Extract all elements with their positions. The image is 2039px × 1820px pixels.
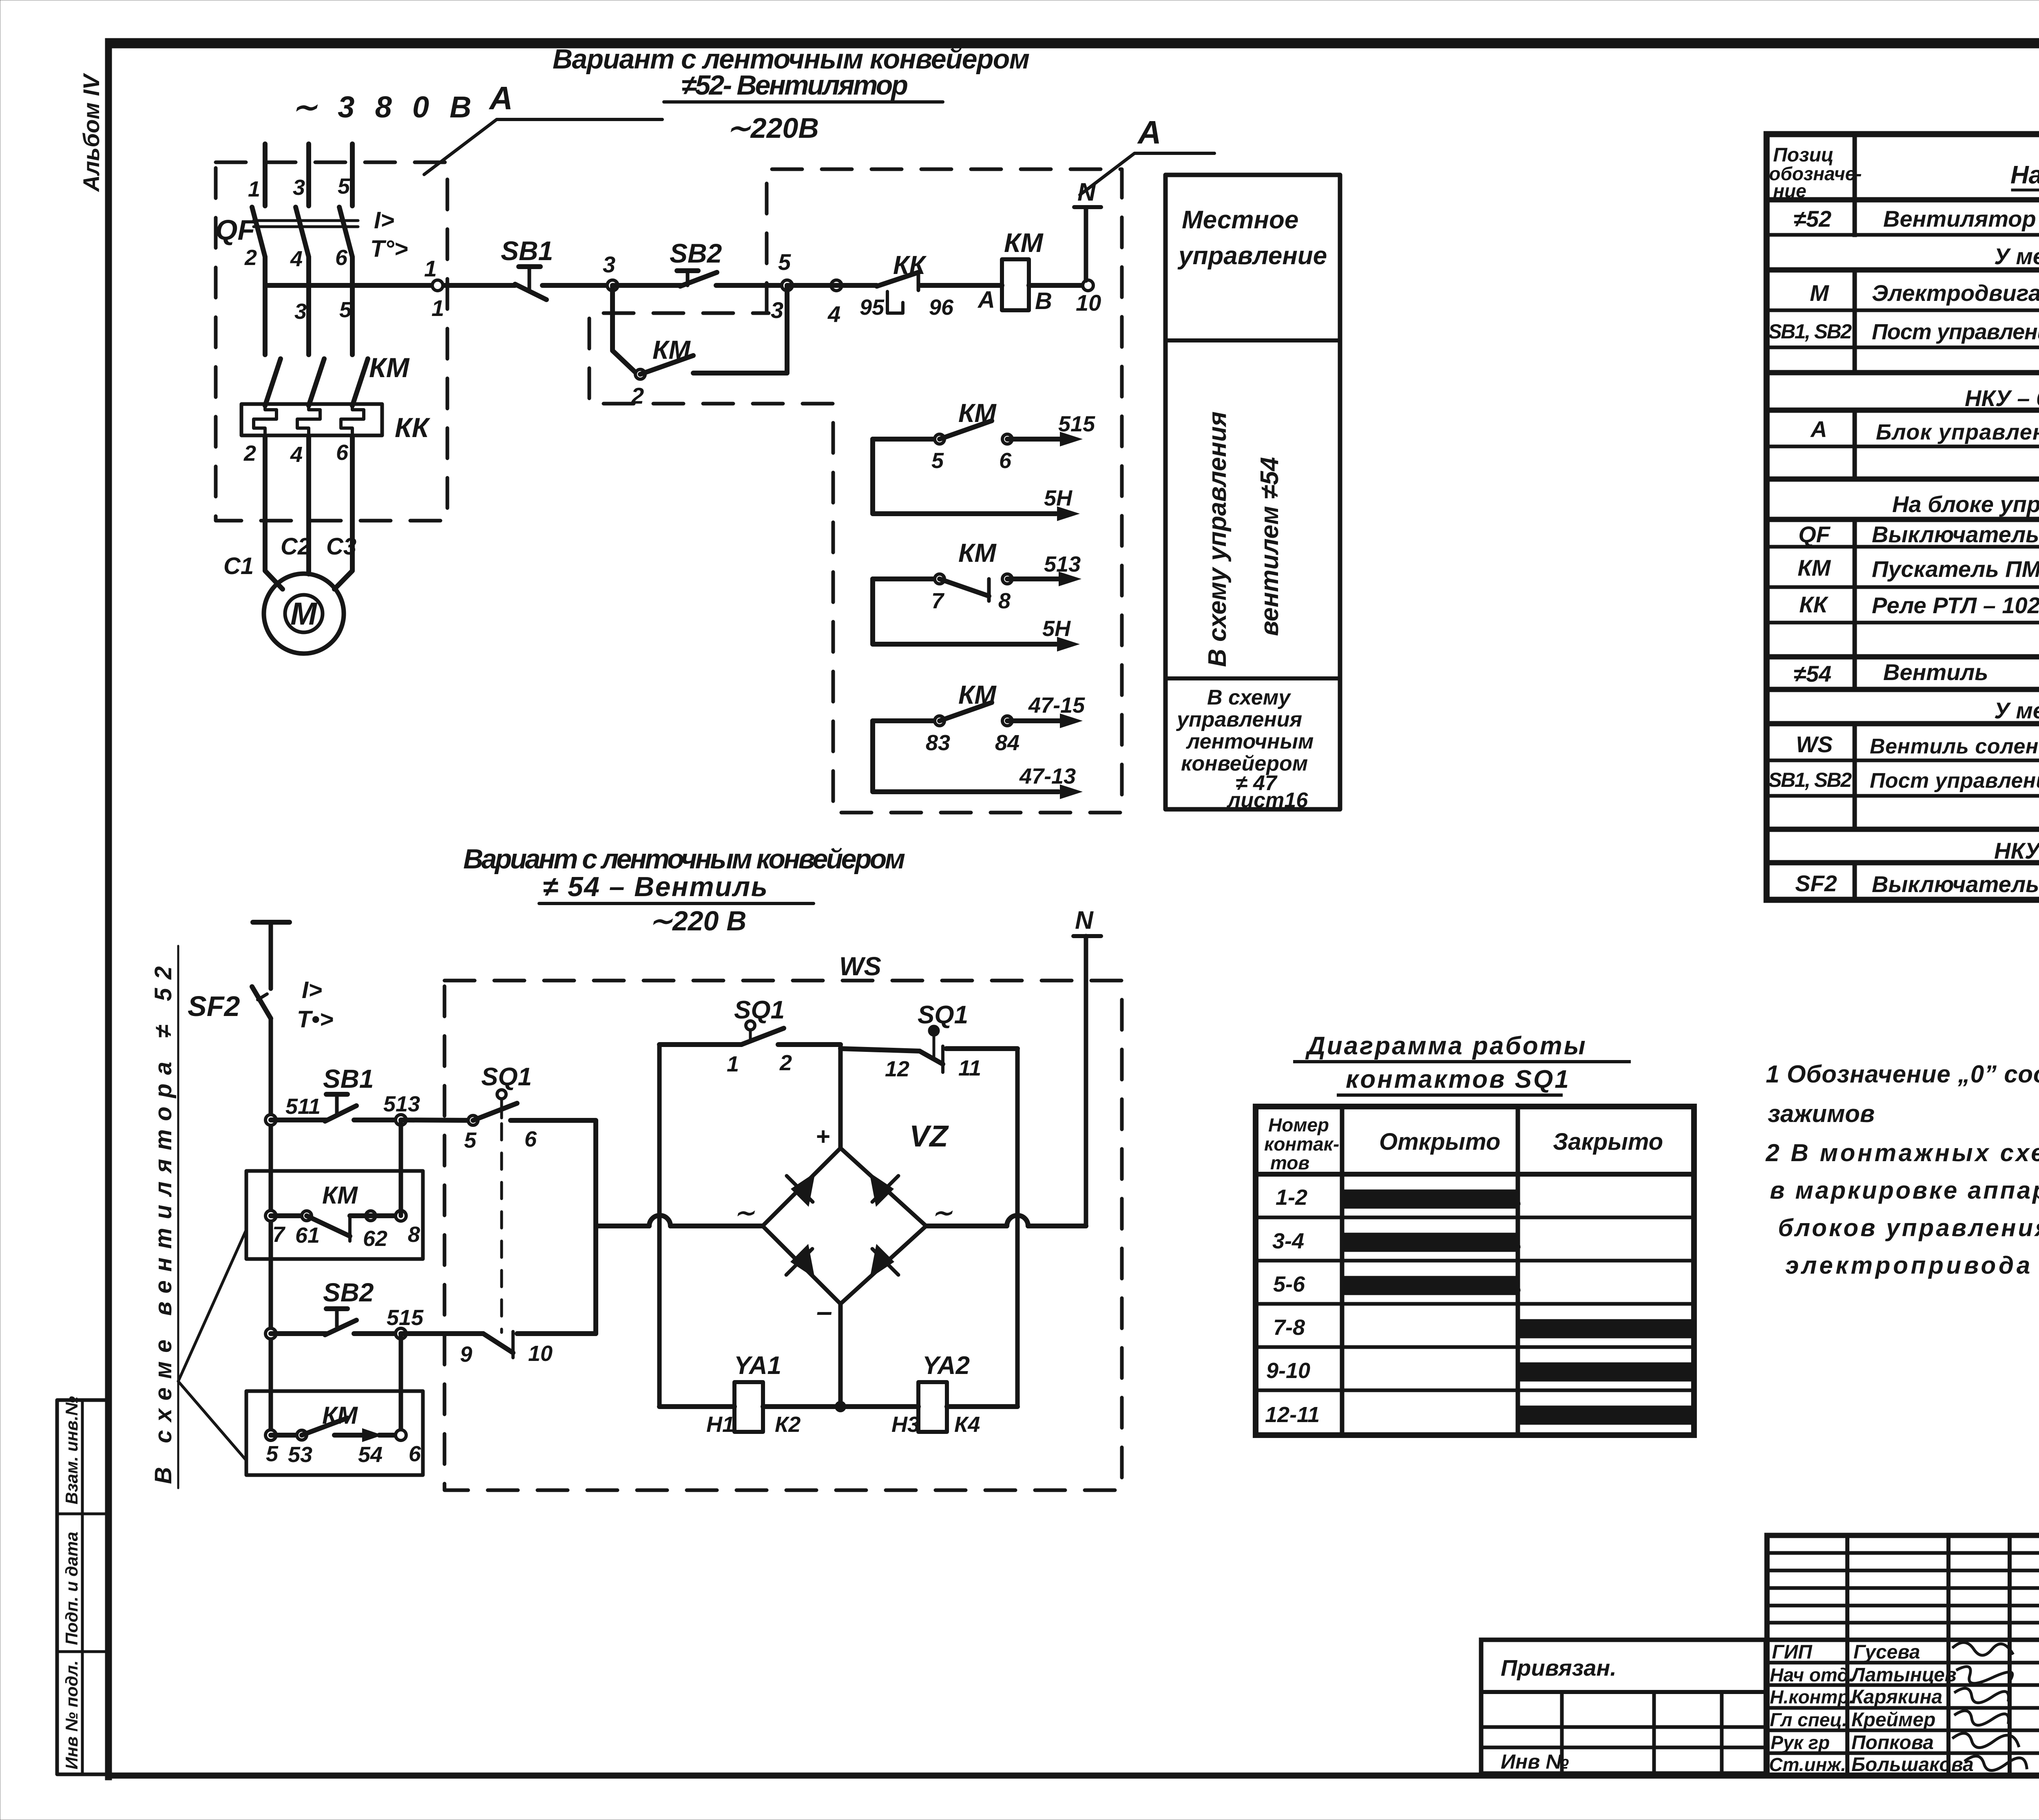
state bar 7-8 closed [1520,1321,1692,1336]
state bar 1-2 open [1346,1191,1516,1207]
drop 513 to seal [399,1120,403,1216]
thermal hook [887,292,903,313]
phase line 2 mid [306,257,311,355]
svg-text:–: – [816,1295,832,1327]
wire SB1 to 513 [354,1118,401,1122]
svg-text:вентилем ≠54: вентилем ≠54 [1256,457,1284,636]
wire 6 to corner [511,1120,596,1334]
svg-text:К2: К2 [775,1412,801,1437]
sig table columns [1845,1535,1849,1776]
svg-text:Карякина: Карякина [1851,1686,1942,1708]
border frame top [105,38,2039,48]
svg-text:В схему управления: В схему управления [1203,411,1232,667]
bridge diamond [763,1148,926,1304]
svg-text:7: 7 [272,1222,286,1247]
svg-text:КК: КК [395,412,431,443]
svg-text:SF2: SF2 [188,990,240,1022]
wire 513 to SQ1 [401,1120,473,1120]
svg-text:Реле РТЛ – 102204: Реле РТЛ – 102204 [1872,592,2039,618]
contactor KM blade 2 [309,359,324,406]
spec table column poz [1853,134,1857,900]
bridge right to jump [926,1224,1007,1228]
svg-text:Местное: Местное [1182,206,1298,234]
svg-text:12: 12 [885,1057,909,1081]
phase line 3 mid [350,257,355,355]
svg-text:На блоке управления: На блоке управления [1892,491,2039,517]
SQ1 mechanical link dashed [500,1124,503,1332]
node 3 [607,280,618,291]
svg-text:лист16: лист16 [1226,789,1308,812]
neutral N terminal sch1 [1084,209,1088,281]
pushbutton SB2 valve NO [326,1306,347,1311]
contactor KM blade 1 [265,359,281,406]
svg-text:8: 8 [998,589,1011,613]
dashed boundary block A control [589,169,1122,813]
svg-text:Закрыто: Закрыто [1553,1129,1663,1155]
svg-text:Вентилятор: Вентилятор [1883,206,2036,232]
svg-text:9: 9 [460,1342,472,1367]
svg-text:КМ: КМ [369,352,410,383]
svg-text:электропривода по плану: электропривода по плану [1785,1252,2039,1279]
seal branch wire to node5 [693,285,787,373]
svg-text:3: 3 [771,297,783,323]
svg-text:≠54: ≠54 [1794,661,1831,687]
svg-text:515: 515 [387,1305,424,1330]
svg-text:Латынцев: Латынцев [1850,1664,1957,1686]
pushbutton SB1 NC contact [519,264,540,269]
callout A line sch1 control [1080,153,1214,195]
drop 515 to seal2 [399,1334,403,1435]
svg-text:Привязан.: Привязан. [1501,1655,1617,1681]
motor M inner circle [285,595,323,632]
phase line 1 mid [263,257,268,285]
wire node3 to SB2 [613,283,682,288]
svg-text:7-8: 7-8 [1273,1315,1305,1340]
svg-text:Диаграмма работы: Диаграмма работы [1305,1032,1587,1060]
aux row 2 wire arrow 513 [1007,576,1060,581]
svg-text:тов: тов [1270,1152,1309,1173]
seal2 wire arrow [334,1433,367,1438]
svg-text:QF: QF [215,214,256,246]
svg-text:∼: ∼ [734,1199,755,1226]
svg-text:∼220В: ∼220В [727,112,819,144]
wire 10 up [517,1331,596,1336]
underline title 2 [539,902,814,905]
sig name rows [1767,1661,2039,1665]
svg-text:53: 53 [288,1442,312,1467]
node SB2 junction [265,1328,276,1339]
svg-text:5Н: 5Н [1042,616,1071,641]
center drop to bridge [838,1045,843,1148]
svg-text:5Н: 5Н [1044,486,1073,510]
svg-text:НКУ - 6Щ: НКУ - 6Щ [1994,838,2039,864]
node 5 [782,280,792,291]
svg-text:Н1: Н1 [706,1412,734,1437]
svg-text:6: 6 [336,440,349,465]
svg-text:Наименование: Наименование [2010,161,2039,189]
svg-text:зажимов: зажимов [1768,1100,1875,1127]
svg-text:Пост управления кнопочный ПК: Пост управления кнопочный ПКЕ722-2У2 [1872,320,2039,344]
aux row 3 wire arrow 47-15 [1007,718,1060,723]
svg-text:1: 1 [248,177,260,201]
SQ1 contact 5-6 [468,1115,478,1125]
svg-text:3: 3 [294,299,307,324]
svg-text:SQ1: SQ1 [481,1063,532,1091]
border frame bottom [105,1773,2039,1778]
svg-text:Номер: Номер [1268,1114,1329,1135]
svg-text:6: 6 [524,1127,537,1151]
svg-text:5: 5 [338,174,350,199]
svg-text:Вариант с ленточным конвейе: Вариант с ленточным конвейером [463,844,905,875]
underline [664,100,943,104]
node 1 [432,280,443,291]
aux row 2 top wire [873,576,940,581]
jump over left loop [649,1215,670,1226]
svg-text:4: 4 [827,301,840,327]
svg-text:Взам. инв.№: Взам. инв.№ [62,1396,81,1504]
control bus wire segment 1 [265,283,515,288]
aux row 1 left drop [873,439,1056,514]
svg-text:1-2: 1-2 [1276,1185,1307,1210]
svg-text:Гусева: Гусева [1853,1641,1920,1663]
svg-text:управление: управление [1177,242,1327,270]
svg-text:SB1: SB1 [501,236,553,266]
svg-text:КК: КК [1799,592,1829,617]
SQ1 contact 9-10 [483,1334,513,1353]
svg-text:А: А [977,287,995,313]
svg-text:SB1, SB2: SB1, SB2 [1768,320,1852,343]
svg-text:SB1, SB2: SB1, SB2 [1768,769,1852,791]
pushbutton SB1 valve NO [326,1092,347,1097]
node 5 rail [265,1430,276,1440]
diode lower right [870,1244,894,1278]
svg-text:А: А [1137,114,1161,150]
svg-text:Блок управления БОУ5130-3А7: Блок управления БОУ5130-3А74УХЛ4Б [1876,420,2039,444]
svg-text:SB1: SB1 [323,1064,374,1093]
phase line 1 mid lower [263,285,268,355]
svg-text:Вентиль: Вентиль [1883,659,1988,685]
svg-text:Попкова: Попкова [1851,1732,1934,1754]
left loop vertical [657,1045,662,1407]
svg-text:5: 5 [266,1442,279,1466]
wire 2 to center [778,1042,840,1047]
svg-text:Ст.инж.: Ст.инж. [1769,1754,1846,1775]
svg-text:3: 3 [293,175,305,200]
svg-text:Альбом IV: Альбом IV [78,73,104,192]
svg-text:N: N [1077,178,1096,206]
svg-text:Нач отд.: Нач отд. [1770,1664,1854,1685]
svg-text:∼: ∼ [932,1199,953,1226]
right loop vertical [1015,1049,1020,1407]
wire 515 to SQ1 9-10 [401,1331,483,1336]
thermal contact KK NC [877,272,918,286]
contactor coil KM [1002,259,1029,310]
svg-text:62: 62 [363,1226,387,1251]
wire to N [1028,1224,1086,1228]
svg-text:83: 83 [926,731,950,755]
svg-text:Н.контр.: Н.контр. [1770,1686,1854,1707]
diode upper left [791,1173,815,1207]
SQ1 actuator [497,1090,506,1099]
svg-text:≠52- Вентилятор: ≠52- Вентилятор [681,70,908,101]
callout fan upper [178,1230,246,1381]
svg-text:SQ1: SQ1 [734,996,785,1024]
diode lower left [790,1244,815,1278]
node 7 [265,1210,276,1221]
svg-text:управления: управления [1176,708,1302,731]
svg-text:НКУ – 6Щ: НКУ – 6Щ [1965,385,2039,411]
svg-text:6: 6 [999,448,1012,473]
node 513 [396,1115,406,1125]
motor lead 3 [334,435,352,589]
phase line 2 top stub [306,144,311,206]
svg-text:47-13: 47-13 [1019,764,1076,789]
spec table header bottom [1767,197,2039,203]
svg-text:Пускатель ПМЛ210004Б, ПКЛ 2: Пускатель ПМЛ210004Б, ПКЛ 2204 [1872,556,2039,582]
pinned stamp box [1481,1640,1766,1774]
svg-text:1: 1 [424,256,437,281]
wire node5 to KK contact [787,283,877,288]
wire 11 to corner [946,1046,1017,1051]
diagram table outer [1256,1107,1694,1435]
border frame left [105,38,112,1780]
SQ1 12-11 wire [840,1049,920,1051]
svg-text:К4: К4 [954,1412,980,1437]
svg-text:3: 3 [603,252,615,277]
state bar 3-4 open [1346,1235,1516,1250]
breaker QF blade 3 [339,207,352,257]
phase line 1 top stub [263,144,268,206]
svg-text:7: 7 [931,589,945,613]
dashed box block A power [216,162,447,521]
breaker QF blade 1 [252,207,265,257]
svg-text:С3: С3 [326,533,356,560]
svg-text:SF2: SF2 [1795,870,1837,896]
svg-text:10: 10 [1076,290,1101,316]
bottom wire mid [763,1404,918,1409]
svg-text:11: 11 [958,1056,981,1080]
svg-text:WS: WS [1796,731,1833,757]
svg-text:Электродвигатель 4А132М4: Электродвигатель 4А132М4 [1872,280,2039,306]
svg-text:Инв № подл.: Инв № подл. [62,1661,81,1769]
seal box KM sb2 [246,1391,423,1475]
motor lead 2 [306,435,311,574]
svg-text:ГИП: ГИП [1772,1641,1813,1663]
contactor KM blade 3 [352,359,368,406]
svg-text:1 Обозначение „0” соответст: 1 Обозначение „0” соответствует заводско… [1766,1060,2039,1088]
node 10 [1083,280,1093,291]
svg-text:513: 513 [383,1092,420,1116]
title block outer [1767,1535,2039,1776]
svg-text:61: 61 [295,1223,320,1248]
svg-text:Подп. и дата: Подп. и дата [62,1532,81,1645]
svg-text:С1: С1 [223,553,254,579]
state bar 12-11 closed [1520,1407,1692,1423]
svg-text:I>: I> [302,977,322,1003]
svg-text:Пост управления кнопочный: Пост управления кнопочный ПКЕ222-2У2 [1870,769,2039,793]
vertical note line [177,946,179,1488]
sig table small rows [1767,1551,2039,1555]
wire SB2 row [271,1331,326,1336]
svg-text:95: 95 [860,295,885,320]
svg-text:А: А [1810,416,1827,442]
svg-text:Гл спец.: Гл спец. [1770,1709,1847,1730]
jump over right loop [1007,1215,1028,1226]
svg-text:6: 6 [335,245,348,270]
phase line 3 top stub [350,144,355,206]
svg-text:Открыто: Открыто [1379,1129,1500,1155]
svg-text:96: 96 [929,295,954,320]
svg-text:12-11: 12-11 [1265,1403,1320,1427]
diagram header bottom [1256,1172,1694,1177]
left margin stamp box [57,1400,109,1774]
svg-text:Креймер: Креймер [1851,1709,1935,1731]
seal branch node3 down [613,285,636,373]
thermal element 3 [341,404,364,435]
breaker SF2 blade [252,987,271,1018]
seal wire [271,1213,307,1218]
aux row 3 top wire [873,718,940,723]
svg-text:6: 6 [409,1442,421,1466]
svg-text:9-10: 9-10 [1266,1358,1310,1383]
node 511 junction [265,1115,276,1125]
svg-text:У механизма: У механизма [1994,243,2039,269]
diagram col lines [1340,1107,1345,1435]
svg-text:4: 4 [290,442,303,467]
svg-text:SQ1: SQ1 [918,1001,968,1029]
svg-text:I>: I> [374,207,394,234]
svg-text:1: 1 [727,1052,739,1076]
svg-text:2: 2 [243,441,256,466]
thermal element 2 [297,404,320,435]
SQ1 1-2 wire [659,1042,741,1047]
spec row lines [1767,233,2039,237]
svg-text:контактов SQ1: контактов SQ1 [1346,1065,1570,1093]
svg-text:Выключатель АЕ2036 - 10У3: Выключатель АЕ2036 - 10У3 [1872,521,2039,547]
callout A line sch1 [424,119,662,174]
svg-text:T•>: T•> [297,1006,334,1033]
wire KK to coil [921,283,1002,288]
motor M outer circle [264,574,344,654]
supply rail [269,1018,273,1435]
svg-text:513: 513 [1044,552,1081,576]
aux row 2 bottom arrow 5N [1057,637,1080,652]
svg-text:М: М [290,596,318,632]
thermal relay KK box [241,404,382,435]
wire SB1 to node 3 [542,283,613,288]
aux row 1 wire arrow 515 [1007,437,1060,442]
svg-text:SB2: SB2 [670,238,722,268]
svg-text:ние: ние [1773,180,1806,201]
svg-text:С2: С2 [281,533,311,560]
svg-text:Большакова: Большакова [1851,1754,1974,1776]
svg-text:QF: QF [1798,521,1831,547]
node 515 [396,1328,406,1339]
aux row 1 top wire [873,437,940,442]
wire SB2 to node 5 [716,283,787,288]
breaker QF linkage bar [254,219,358,222]
thermal element 1 [254,404,276,435]
state bar 9-10 closed [1520,1364,1692,1380]
svg-text:2: 2 [631,383,644,409]
svg-text:1: 1 [431,295,444,321]
callout fan lower [178,1381,246,1460]
aux row 2 left drop [873,579,1056,644]
svg-text:47-15: 47-15 [1028,693,1085,718]
svg-text:WS: WS [839,952,881,981]
svg-text:YA1: YA1 [734,1352,781,1380]
svg-text:Рук гр: Рук гр [1771,1732,1830,1753]
svg-text:5: 5 [464,1128,477,1153]
svg-text:T°>: T°> [370,236,408,262]
wire to bridge left [670,1224,763,1228]
local control box [1165,175,1340,809]
breaker QF blade 2 [296,207,309,257]
svg-text:≠52: ≠52 [1794,206,1831,232]
svg-text:∼220 В: ∼220 В [649,906,746,937]
diagram rows [1256,1216,1694,1219]
svg-text:Инв №: Инв № [1501,1750,1569,1773]
bottom wire right [947,1404,1017,1409]
seal wire right [350,1213,401,1218]
svg-text:515: 515 [1058,412,1095,436]
supply rail top T [253,920,290,925]
pushbutton SB2 NO contact [677,268,698,273]
svg-text:54: 54 [358,1442,383,1467]
svg-text:SB2: SB2 [323,1278,374,1307]
state bar 5-6 open [1346,1278,1516,1293]
svg-text:КМ: КМ [1798,555,1831,581]
svg-text:84: 84 [995,731,1019,755]
wire AC left [596,1224,649,1228]
aux row 3 bottom arrow 47-13 [1060,784,1083,799]
svg-text:ленточным: ленточным [1185,730,1314,753]
aux row 3 left drop [873,721,1059,792]
svg-text:М: М [1810,280,1829,306]
svg-text:+: + [816,1123,830,1150]
svg-text:А: А [489,80,513,116]
svg-text:КМ: КМ [1004,227,1044,258]
bottom wire left [659,1404,734,1409]
wire coil to node 10 [1029,283,1086,288]
motor lead 1 [265,435,283,589]
svg-text:4: 4 [290,247,303,271]
svg-text:511: 511 [285,1094,321,1119]
svg-text:5: 5 [931,448,944,473]
svg-text:2: 2 [244,245,257,270]
svg-text:КМ: КМ [958,538,997,568]
svg-text:8: 8 [408,1222,420,1247]
svg-text:контак-: контак- [1264,1133,1339,1155]
spec table outer [1767,134,2039,900]
svg-text:3-4: 3-4 [1272,1229,1304,1253]
svg-text:Выключатель АЕ2026 - 10У3: Выключатель АЕ2026 - 10У3 [1872,871,2039,897]
svg-text:VZ: VZ [909,1119,949,1153]
diode upper right [869,1173,894,1207]
solenoid valve dashed box WS [445,981,1122,1490]
wire 511 [271,1118,326,1122]
svg-text:КМ: КМ [322,1182,358,1209]
node 4 [831,280,842,291]
svg-text:2: 2 [779,1051,792,1075]
svg-text:Н3: Н3 [891,1412,920,1437]
svg-text:В схему: В схему [1207,686,1292,709]
aux row 1 bottom arrow 5N [1057,506,1080,521]
svg-text:10: 10 [528,1341,553,1366]
svg-text:YA2: YA2 [922,1352,970,1380]
bridge minus drop [838,1304,843,1407]
svg-text:N: N [1075,906,1094,934]
